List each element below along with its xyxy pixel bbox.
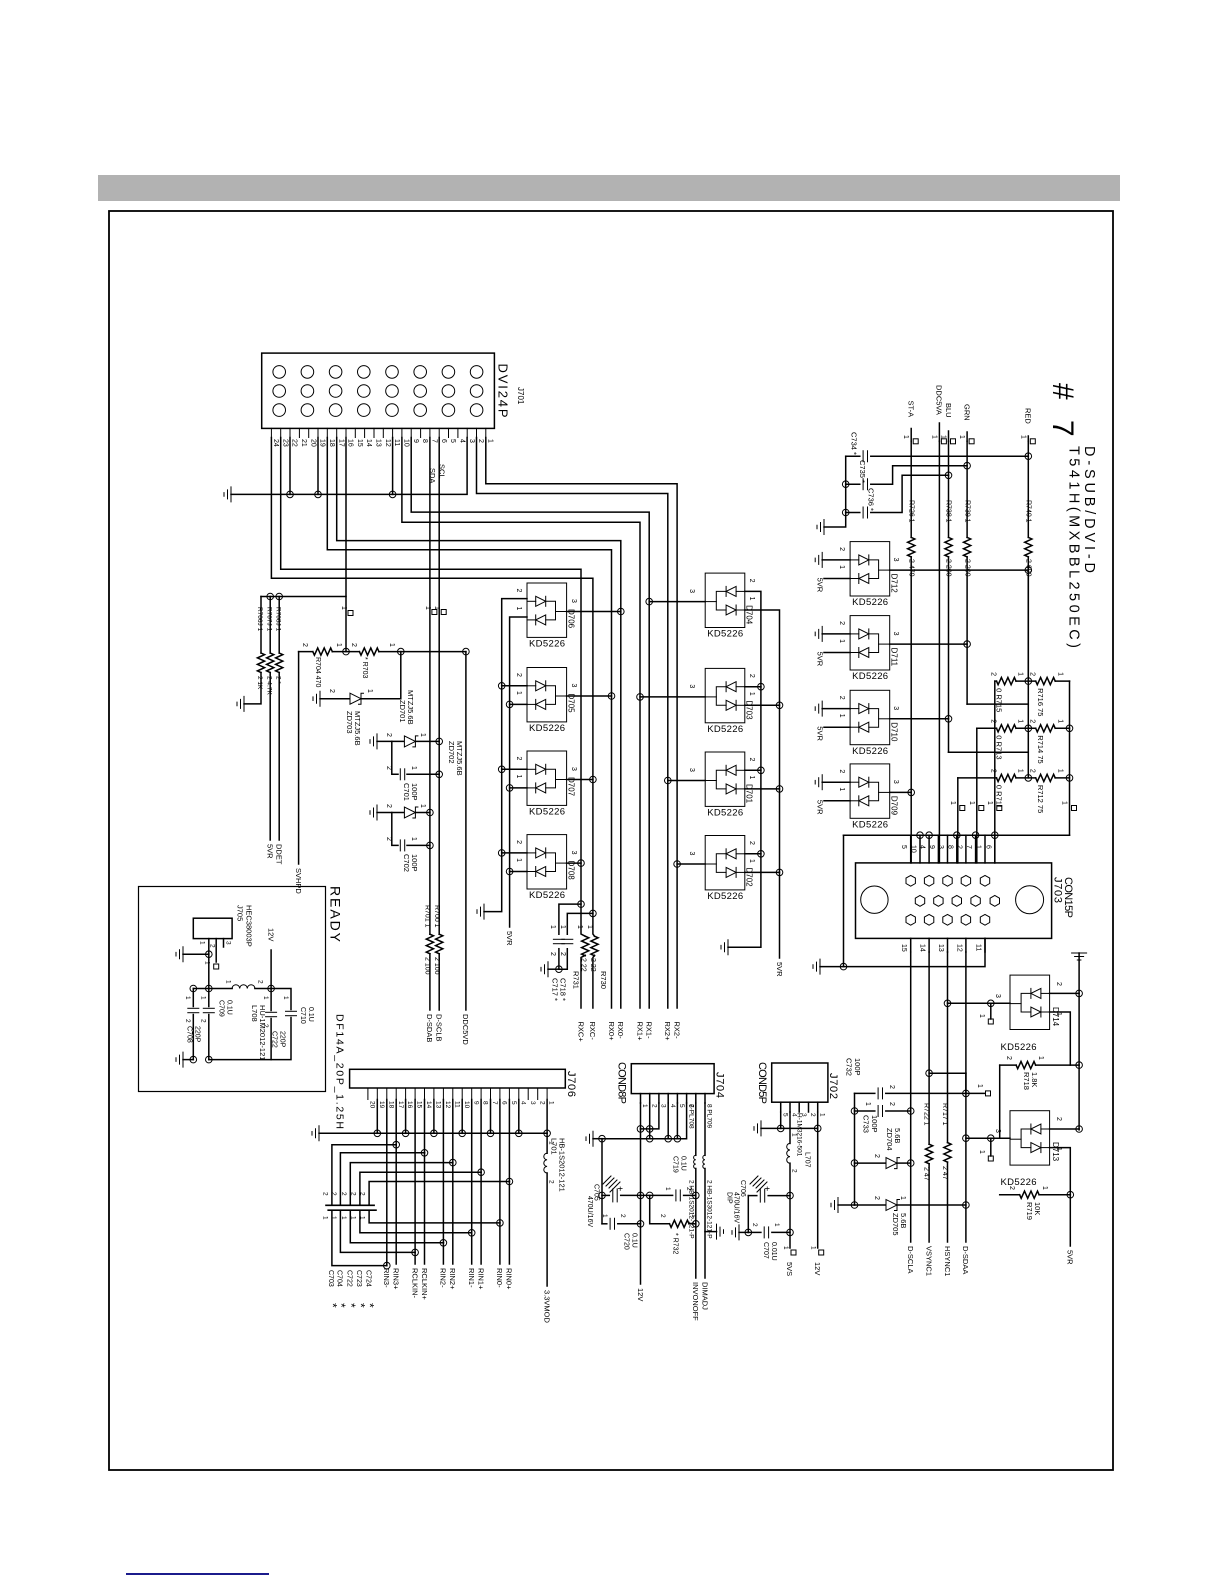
wire R712 right <box>1055 777 1069 779</box>
wire DVI pin24 to RXC- column <box>271 438 594 937</box>
junction staircase pin17 <box>393 1141 400 1148</box>
ground left KD column <box>477 904 484 919</box>
svg-text:2: 2 <box>873 1154 880 1158</box>
svg-text:ZD701: ZD701 <box>398 700 407 723</box>
wire J706 pin12 below2 <box>442 1243 444 1264</box>
wire pin14 column lower to VSYNC1 <box>928 1164 930 1242</box>
wire D709 pin2 to ground <box>822 781 850 783</box>
ground right of J704 <box>717 1224 724 1239</box>
connector J703 CON15P body <box>856 863 1052 939</box>
wire D714 pin2 to rail <box>1050 992 1080 994</box>
svg-text:2: 2 <box>301 643 308 647</box>
svg-text:HSYNC1: HSYNC1 <box>943 1246 952 1276</box>
junction D703 pin2 <box>758 683 765 690</box>
wire ZD704 anode <box>855 1162 886 1164</box>
wire C733 right <box>886 1110 911 1112</box>
junction C705/12V <box>637 1192 644 1199</box>
svg-text:5: 5 <box>678 1104 685 1108</box>
inductor L706 on pin8 <box>703 1155 705 1168</box>
wire R706J bottom to ground <box>244 673 261 704</box>
wire C736 left <box>846 512 860 514</box>
svg-text:1: 1 <box>548 1101 555 1105</box>
wire C702 tap <box>392 813 398 846</box>
svg-text:3: 3 <box>660 1104 667 1108</box>
svg-text:1: 1 <box>515 691 522 695</box>
wire C709 stub <box>208 989 210 1007</box>
svg-text:11: 11 <box>393 439 400 446</box>
svg-text:5VR: 5VR <box>505 931 514 946</box>
wire D703 pin1 stub <box>745 704 780 706</box>
svg-text:2: 2 <box>1055 1117 1062 1121</box>
svg-text:READY: READY <box>328 886 344 943</box>
wire pin15 column to D-SCLA <box>910 952 912 1242</box>
wire J706 pin11 drop <box>452 1100 454 1163</box>
svg-text:1: 1 <box>1057 719 1064 723</box>
wire J706 pin6 below2 <box>499 1223 501 1264</box>
ground D712 pin2 <box>815 552 822 567</box>
wire J706 pin14 below <box>424 1153 426 1264</box>
svg-text:100P: 100P <box>853 1058 862 1076</box>
svg-text:1: 1 <box>515 775 522 779</box>
svg-text:1: 1 <box>388 643 395 647</box>
svg-text:1: 1 <box>838 714 845 718</box>
wire ZD705 cathode <box>897 1204 966 1206</box>
svg-text:1: 1 <box>576 925 583 929</box>
wire R716 right <box>1055 680 1069 682</box>
junction staircase2 pin12 <box>440 1240 447 1247</box>
rail for C734-C736 <box>845 456 847 512</box>
junction ZD701/SCL <box>436 738 443 745</box>
svg-text:D714: D714 <box>1051 1007 1060 1027</box>
junction staircase pin11 <box>450 1159 457 1166</box>
ground for ZD705 row <box>831 1198 838 1213</box>
junction J704 pin2a <box>646 1126 653 1133</box>
wire ZD702 anode <box>377 812 403 814</box>
wire J704 pin4 drop <box>667 1103 669 1139</box>
capacitor C718 <box>562 939 573 943</box>
svg-text:6: 6 <box>501 1101 508 1105</box>
wire J704 pin5 stub <box>676 1094 678 1103</box>
wire C709 bottom <box>208 1015 210 1060</box>
svg-text:1: 1 <box>782 1246 789 1250</box>
junction C702/SDA <box>427 842 434 849</box>
junction D708 pin3 <box>578 860 585 867</box>
junction bus x=929 <box>926 832 933 839</box>
diode array D709 KD5226 <box>850 764 890 818</box>
ground D710 pin2 <box>815 701 822 716</box>
svg-text:SDA: SDA <box>428 468 437 483</box>
wire BLU column <box>948 441 950 537</box>
wire C734 left <box>846 455 860 457</box>
rail 5VR-gnd left KD column pin2s <box>484 599 527 912</box>
svg-text:J703: J703 <box>1052 877 1064 903</box>
wire C719 right <box>684 1194 696 1196</box>
wire left column down <box>601 1139 603 1224</box>
svg-text:2: 2 <box>1029 769 1036 773</box>
svg-text:C707: C707 <box>762 1242 769 1259</box>
svg-text:D702: D702 <box>745 868 754 888</box>
wire J702 pin3 stub <box>798 1102 800 1112</box>
resistor R703 <box>359 648 379 655</box>
ground top of right rail <box>1072 953 1087 960</box>
svg-text:1: 1 <box>1017 769 1024 773</box>
ground mid KD column <box>721 940 728 955</box>
wire D-SUB bottom stub pin 13 <box>947 938 949 952</box>
svg-text:J705: J705 <box>236 905 245 921</box>
svg-text:4: 4 <box>519 1101 526 1105</box>
wire staircase to cap 8 <box>360 1172 481 1205</box>
svg-text:D-SCLA: D-SCLA <box>906 1246 915 1274</box>
junction D707 pin2 <box>498 766 505 773</box>
resistor R707J <box>267 653 274 673</box>
svg-text:SCL: SCL <box>437 464 446 479</box>
wire DVI pin2 to RX2+ column <box>477 438 668 1009</box>
wire D-SUB bottom stub pin 11 <box>984 938 986 952</box>
wire J706 pin8 below <box>480 1172 482 1264</box>
svg-text:R707J 1: R707J 1 <box>265 607 272 632</box>
ground for R706J <box>237 696 244 711</box>
wire ZD704 cathode <box>897 1162 911 1164</box>
junction staircase pin8 <box>478 1169 485 1176</box>
svg-text:11: 11 <box>975 944 982 951</box>
wire C706 left <box>748 1195 757 1197</box>
wire staircase2 from cap 9 <box>360 1210 472 1233</box>
wire D713 pin1 corner <box>1050 1148 1071 1195</box>
wire J704 pin2 stub <box>649 1094 651 1103</box>
svg-text:R712 75: R712 75 <box>1036 785 1045 813</box>
junction D704 pin3 <box>646 598 653 605</box>
junction J706 pin13 gnd <box>431 1130 438 1137</box>
svg-text:R704 470: R704 470 <box>314 657 321 687</box>
wire C718 bottom join <box>559 949 567 970</box>
J706 pin stubs <box>368 1088 547 1100</box>
resistor R718 <box>1016 1062 1036 1069</box>
junction D702 pin2 <box>758 851 765 858</box>
svg-text:12: 12 <box>955 944 962 952</box>
resistor R711 <box>997 774 1017 781</box>
svg-text:C732: C732 <box>845 1058 854 1076</box>
svg-text:3: 3 <box>688 589 695 593</box>
svg-text:1: 1 <box>410 837 417 841</box>
resistor R700 <box>436 934 443 954</box>
junction D701 pin3 <box>665 777 672 784</box>
svg-text:1.8K: 1.8K <box>1030 1072 1039 1087</box>
svg-text:ZD705: ZD705 <box>891 1213 900 1236</box>
wire C717 bottom to ground join <box>558 949 560 970</box>
svg-text:23: 23 <box>281 439 288 447</box>
ground for ZD701 <box>370 734 377 749</box>
diode array D706 KD5226 <box>527 583 567 637</box>
svg-text:5: 5 <box>510 1101 517 1105</box>
connector J701 DVI24P body <box>262 353 495 428</box>
wire J706 pin18 drop2 <box>386 1100 388 1266</box>
junction staircase pin14 <box>421 1150 428 1157</box>
svg-text:SVHPD: SVHPD <box>294 868 303 894</box>
svg-text:5VR: 5VR <box>816 800 825 815</box>
svg-text:VSYNC1: VSYNC1 <box>924 1246 933 1276</box>
pad on termination rail <box>1072 806 1077 811</box>
capacitor C717 <box>553 939 564 943</box>
svg-text:1: 1 <box>184 996 191 1000</box>
junction C733/D-SCLA <box>907 1108 914 1115</box>
wire J704 pin7 drop <box>695 1103 697 1155</box>
wire C717 tap from RXC+ <box>559 904 581 934</box>
svg-text:3: 3 <box>688 768 695 772</box>
wire J704 gnd bus <box>602 1103 687 1139</box>
wire right rail upper <box>1078 953 1080 1130</box>
svg-text:2: 2 <box>385 804 392 808</box>
svg-text:GRN: GRN <box>962 404 971 421</box>
capacitor C719 <box>676 1190 680 1201</box>
diode array D710 KD5226 <box>850 690 890 744</box>
svg-text:KD5226: KD5226 <box>529 723 565 734</box>
svg-text:C723: C723 <box>355 1270 362 1287</box>
wire DVI pin1 to RX2- column <box>486 438 677 1009</box>
svg-text:J704: J704 <box>714 1072 726 1098</box>
svg-text:2 47: 2 47 <box>941 1166 948 1180</box>
wire staircase to cap 14 <box>340 1153 424 1206</box>
wire J702 pin4 stub <box>789 1102 791 1112</box>
ground D709 pin2 <box>815 775 822 790</box>
svg-text:2: 2 <box>328 689 335 693</box>
wire J706 pin17 drop <box>395 1100 397 1145</box>
svg-text:2 *: 2 * <box>274 676 281 684</box>
svg-text:+: + <box>615 1186 625 1191</box>
wire pad stub D713 <box>990 1138 992 1156</box>
svg-text:1: 1 <box>1019 435 1026 439</box>
svg-text:R730: R730 <box>599 971 608 989</box>
svg-text:8: 8 <box>482 1101 489 1105</box>
svg-text:C704: C704 <box>336 1270 343 1287</box>
ground in READY block <box>176 947 183 962</box>
svg-text:1: 1 <box>559 925 566 929</box>
wire SCL column lower to D-SCLB <box>438 954 440 1010</box>
svg-text:5VR: 5VR <box>775 962 784 977</box>
wire J705 pin3 <box>223 939 225 947</box>
svg-text:2 4.7K: 2 4.7K <box>265 676 272 695</box>
svg-text:5VR: 5VR <box>816 726 825 741</box>
svg-text:DDC5VD: DDC5VD <box>461 1014 470 1045</box>
junction D707 pin3 <box>590 776 597 783</box>
junction pin22 ground <box>287 491 294 498</box>
resistor R739 <box>964 537 971 557</box>
svg-text:KD5226: KD5226 <box>707 891 743 902</box>
wire caps to ground <box>548 968 559 970</box>
wire J705 pin1 down <box>208 954 210 988</box>
capacitor C710 <box>286 1011 297 1015</box>
wire C708 bottom <box>192 1015 194 1060</box>
resistor R738 <box>945 537 952 557</box>
svg-text:2: 2 <box>791 1169 798 1173</box>
svg-text:1: 1 <box>978 1014 985 1018</box>
svg-text:2: 2 <box>1008 1186 1015 1190</box>
svg-text:4: 4 <box>919 845 926 849</box>
svg-text:12: 12 <box>384 439 391 447</box>
diode array D708 KD5226 <box>527 835 567 889</box>
C705 polarity hatch <box>603 1176 620 1192</box>
resistor R706J <box>257 653 264 673</box>
svg-text:2: 2 <box>515 757 522 761</box>
wire J706 pin1 to gnd bus <box>546 1100 548 1134</box>
svg-text:1: 1 <box>864 1102 871 1106</box>
wire C718 tap from RXC- <box>567 913 593 934</box>
wire C708 stub <box>192 989 194 1007</box>
connector J706 body <box>350 1069 566 1088</box>
svg-text:KD5226: KD5226 <box>1001 1177 1037 1188</box>
wire J706 pin5 drop <box>508 1100 510 1182</box>
svg-text:L707: L707 <box>804 1152 811 1168</box>
ground for C734-C736 <box>817 520 824 535</box>
wire 12V drop <box>270 950 272 989</box>
capacitor C702 <box>400 840 404 851</box>
junction R718 rail <box>1076 1062 1083 1069</box>
connector J704 body <box>631 1064 714 1094</box>
junction J702 pin1 <box>814 1125 821 1132</box>
svg-text:1: 1 <box>410 766 417 770</box>
svg-text:2: 2 <box>1055 982 1062 986</box>
wire J706 pin11 below <box>452 1163 454 1264</box>
wire pin4 below coil <box>789 1163 791 1248</box>
svg-text:RED: RED <box>1024 408 1033 424</box>
wire D702 pin3 to column <box>677 863 705 865</box>
ground D711 pin2 <box>815 626 822 641</box>
svg-text:220P: 220P <box>279 1031 286 1048</box>
wire D-SUB top stub x=938 <box>937 835 939 863</box>
svg-text:RCLKIN+: RCLKIN+ <box>420 1268 429 1301</box>
svg-text:2: 2 <box>748 758 755 762</box>
svg-text:COND5P: COND5P <box>756 1062 768 1104</box>
pad J705 pin2 <box>214 964 219 969</box>
resistor R708J <box>276 653 283 673</box>
wire J702 pin1 drop <box>817 1112 819 1128</box>
svg-text:RIN3-: RIN3- <box>382 1268 391 1288</box>
svg-text:R722 1: R722 1 <box>923 1103 930 1126</box>
svg-text:1: 1 <box>419 733 426 737</box>
wire rail to 5VR <box>1069 1195 1071 1246</box>
svg-text:KD5226: KD5226 <box>707 808 743 819</box>
wire D-SUB top stub x=911 <box>910 835 912 863</box>
junction D708 pin1 <box>506 868 513 875</box>
wire J704 pin1 stub <box>640 1094 642 1103</box>
svg-text:0 R713: 0 R713 <box>995 735 1004 759</box>
svg-text:T541H(MXBBL250EC): T541H(MXBBL250EC) <box>1066 446 1082 648</box>
junction bus x=976 <box>972 832 979 839</box>
wire J704 pin3 link <box>641 1103 659 1129</box>
wire ZD702 cathode to SDA <box>415 812 430 814</box>
svg-text:R719: R719 <box>1025 1202 1034 1220</box>
svg-text:KD5226: KD5226 <box>707 629 743 640</box>
svg-text:1: 1 <box>949 801 956 805</box>
svg-text:INVONOFF: INVONOFF <box>691 1282 700 1321</box>
junction D713 pin3 pad stub <box>988 1135 995 1142</box>
resistor R701 <box>426 934 433 954</box>
svg-text:5: 5 <box>900 845 907 849</box>
wire D707 pin2 stub <box>502 768 527 770</box>
svg-text:2: 2 <box>385 733 392 737</box>
junction D709/ST-A <box>908 789 915 796</box>
ground for C706/C707 <box>732 1225 739 1240</box>
capacitor C701 <box>400 769 404 780</box>
svg-text:1: 1 <box>773 1223 780 1227</box>
svg-text:6: 6 <box>984 845 991 849</box>
svg-text:KD5226: KD5226 <box>707 724 743 735</box>
junction D714 pin3 / pin13 column <box>944 1000 951 1007</box>
wire R714 right <box>1055 727 1069 729</box>
svg-text:2: 2 <box>1005 1056 1012 1060</box>
svg-text:1: 1 <box>1041 1186 1048 1190</box>
svg-text:1: 1 <box>1055 1012 1062 1016</box>
svg-text:1: 1 <box>1057 769 1064 773</box>
capacitor bank bottom plate <box>328 1209 376 1211</box>
svg-text:7-PL708: 7-PL708 <box>687 1104 694 1129</box>
wire J706 pin15 below2 <box>414 1252 416 1264</box>
svg-text:5.6B: 5.6B <box>893 1128 902 1143</box>
rail gnd mid KD column pin2s <box>728 591 761 947</box>
svg-text:0 R711: 0 R711 <box>995 785 1004 809</box>
svg-text:C735 *: C735 * <box>858 460 867 483</box>
svg-text:1: 1 <box>424 606 431 610</box>
svg-text:KD5226: KD5226 <box>529 639 565 650</box>
svg-text:2: 2 <box>330 1192 337 1196</box>
wire staircase to cap 17 <box>332 1145 396 1206</box>
wire J704 pin4 stub <box>667 1094 669 1103</box>
svg-text:*: * <box>363 1303 377 1308</box>
svg-text:1: 1 <box>321 1216 328 1220</box>
svg-text:15: 15 <box>900 944 907 952</box>
wire R713 left corner <box>977 727 997 729</box>
wire DVI pin23 to RXC+ column lower <box>581 955 585 1008</box>
junction C736 rail <box>842 509 849 516</box>
svg-text:5: 5 <box>781 1113 788 1117</box>
svg-text:1: 1 <box>940 435 947 439</box>
ground for J702 <box>754 1121 761 1136</box>
svg-text:5VR: 5VR <box>816 578 825 593</box>
svg-text:C709: C709 <box>218 1000 225 1017</box>
diode array D711 KD5226 <box>850 616 890 670</box>
junction R708J top <box>276 593 283 600</box>
svg-text:ZD704: ZD704 <box>885 1128 894 1151</box>
junction C735/GRN <box>964 462 971 469</box>
wire C722 bottom <box>270 1019 272 1060</box>
junction R711/R712 mid <box>1025 775 1032 782</box>
svg-text:1: 1 <box>986 801 993 805</box>
bus for pull resistors R706J-R708J <box>261 438 346 597</box>
svg-text:RX2-: RX2- <box>672 1022 681 1040</box>
svg-text:2 1K: 2 1K <box>256 676 263 690</box>
svg-text:3: 3 <box>225 941 232 945</box>
svg-text:12: 12 <box>444 1101 451 1109</box>
junction C708 bottom <box>190 1056 197 1063</box>
diode array D701 KD5226 <box>705 752 745 806</box>
svg-text:100P: 100P <box>870 1115 879 1133</box>
svg-text:3: 3 <box>570 599 577 603</box>
svg-text:2: 2 <box>209 944 216 948</box>
svg-text:1: 1 <box>515 607 522 611</box>
junction staircase2 pin18 <box>384 1262 391 1269</box>
pad on DDC5VA column <box>941 439 946 444</box>
svg-text:12V: 12V <box>636 1288 645 1301</box>
svg-text:L701: L701 <box>550 1138 559 1155</box>
wire R703 to DDC5VD column <box>379 651 466 653</box>
svg-text:15: 15 <box>356 439 363 447</box>
pad on SDA column <box>432 610 437 615</box>
junction ZD704 rail <box>851 1160 858 1167</box>
wire D714 pin1 corner <box>1050 1012 1071 1065</box>
schematic frame <box>109 211 1113 1470</box>
svg-text:3: 3 <box>688 852 695 856</box>
svg-text:2: 2 <box>538 1101 545 1105</box>
wire ground line to pin11 <box>820 938 985 966</box>
